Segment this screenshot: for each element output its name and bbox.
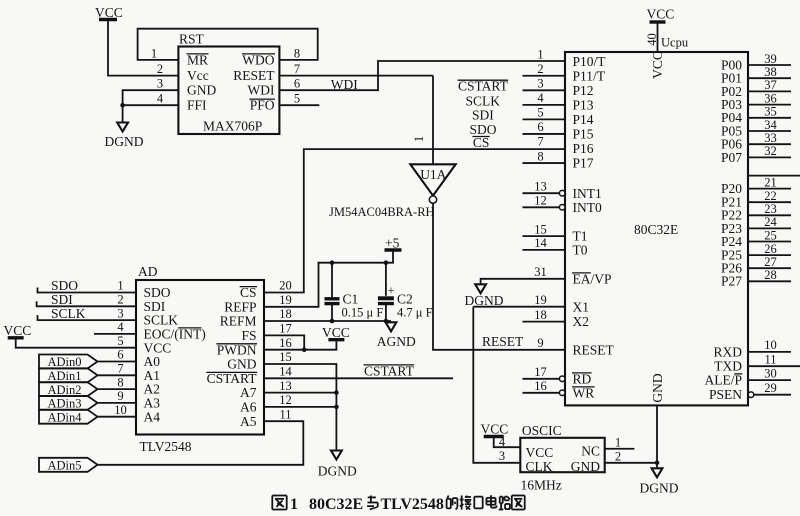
svg-text:P16: P16: [573, 141, 594, 156]
svg-text:0.15 μ F: 0.15 μ F: [342, 306, 384, 320]
pin 18 TLV right: [220, 307, 292, 328]
svg-text:40: 40: [645, 33, 659, 46]
wire ADin1 to pin7: [98, 374, 137, 376]
junction C1 top: [330, 260, 335, 265]
wire FS pin17 down to PWDN: [264, 335, 304, 349]
pin 4 FFI: [157, 92, 207, 113]
svg-text:DGND: DGND: [640, 481, 679, 496]
power +5: [385, 236, 402, 251]
svg-text:ADin3: ADin3: [48, 397, 82, 411]
pin 39 P00: [721, 52, 791, 73]
svg-text:RESET: RESET: [573, 342, 615, 357]
svg-text:6: 6: [537, 120, 543, 134]
svg-text:3: 3: [537, 77, 543, 91]
svg-text:MAX706P: MAX706P: [203, 119, 262, 134]
pin 26 P25: [721, 242, 791, 263]
pin 36 P03: [721, 91, 791, 112]
svg-text:4: 4: [499, 435, 506, 449]
svg-text:C1: C1: [343, 292, 359, 307]
svg-text:DGND: DGND: [105, 134, 144, 149]
svg-text:CS: CS: [240, 285, 257, 300]
wire WDI pin6 to 80C32E pin1: [280, 61, 566, 90]
pin 28 P27: [721, 268, 791, 289]
pin 17 RD: [523, 365, 592, 386]
svg-text:WR: WR: [573, 385, 595, 400]
svg-text:20: 20: [279, 279, 292, 293]
wire GND pin15 down: [264, 364, 336, 451]
svg-text:TLV2548: TLV2548: [140, 439, 192, 454]
pin 40 wire into top: [657, 24, 659, 53]
wire X1 down to oscillator CLK: [473, 307, 520, 463]
overline CS pin20: [240, 286, 257, 288]
wire ADin4 to pin10: [98, 416, 137, 418]
pin 15 T1: [523, 222, 588, 243]
svg-text:80C32E: 80C32E: [634, 222, 678, 237]
svg-text:18: 18: [279, 307, 292, 321]
svg-text:A1: A1: [144, 368, 161, 383]
svg-text:4: 4: [537, 91, 544, 105]
svg-text:8: 8: [294, 47, 300, 61]
overline PWDN pin16: [216, 343, 257, 345]
pin 8 P17: [523, 149, 594, 170]
pin 12 INT0: [523, 194, 602, 215]
wire A6 pin12: [264, 406, 336, 408]
pin 6 WDI: [248, 77, 301, 98]
svg-text:19: 19: [534, 293, 547, 307]
pin 7 RESET: [233, 62, 300, 83]
svg-text:16: 16: [534, 379, 547, 393]
pin 30 ALE/P: [704, 366, 791, 387]
svg-text:25: 25: [764, 228, 777, 242]
svg-text:21: 21: [764, 175, 777, 189]
svg-text:SCLK: SCLK: [51, 306, 86, 321]
wire unnumbered stub right: [748, 175, 800, 177]
svg-text:A6: A6: [240, 400, 257, 415]
svg-text:1: 1: [117, 279, 123, 293]
svg-text:WDI: WDI: [248, 83, 275, 98]
wire PFO pin5 stub: [280, 104, 320, 106]
junction FS/PWDN: [302, 347, 307, 352]
wire SDO net: [38, 278, 137, 293]
svg-text:RESET: RESET: [233, 68, 275, 83]
pin 11 TLV right: [240, 407, 292, 428]
svg-text:ADin1: ADin1: [48, 369, 82, 383]
svg-text:SCLK: SCLK: [144, 313, 179, 328]
pin 4 P13: [523, 91, 594, 112]
wire U1A output to 80C32E RESET pin9: [433, 203, 565, 349]
pin 6 TLV left: [117, 348, 160, 369]
pin 4 TLV left: [117, 320, 205, 341]
svg-text:Ucpu: Ucpu: [661, 36, 689, 50]
svg-text:REFM: REFM: [220, 314, 257, 329]
pin 10 TLV left: [114, 403, 160, 424]
svg-text:ALE/P: ALE/P: [704, 373, 742, 388]
svg-text:1: 1: [290, 496, 298, 513]
svg-text:17: 17: [279, 322, 292, 336]
svg-text:VCC: VCC: [647, 7, 675, 22]
op-amp U1A inverter triangle: [410, 164, 455, 195]
pin 14 TLV right: [207, 365, 293, 386]
svg-text:Vcc: Vcc: [187, 68, 209, 83]
svg-text:34: 34: [764, 118, 777, 132]
wire CS net: TLV2548 pin20 up and right to 80C32E pin7: [264, 149, 565, 292]
svg-text:39: 39: [764, 52, 777, 66]
junction C1 bottom: [330, 319, 335, 324]
pin 20 TLV right: [240, 279, 292, 300]
pin 35 P04: [721, 105, 791, 126]
svg-text:28: 28: [764, 268, 777, 282]
svg-text:3: 3: [117, 306, 123, 320]
svg-text:ADin0: ADin0: [48, 355, 82, 369]
svg-text:EOC/(INT): EOC/(INT): [144, 327, 206, 342]
pin 5 TLV left: [117, 334, 171, 355]
pin 11 TXD: [714, 352, 800, 373]
svg-text:A5: A5: [240, 414, 257, 429]
adc TLV2548 box: [136, 280, 264, 454]
svg-text:CSTART: CSTART: [364, 363, 415, 378]
overline CSTART pin14: [206, 371, 257, 373]
pin 24 P23: [721, 215, 791, 236]
svg-text:7: 7: [117, 362, 123, 376]
svg-text:+: +: [388, 284, 395, 298]
svg-text:5: 5: [117, 334, 123, 348]
wire GND pin down to oscillator row: [656, 405, 658, 468]
power VCC (osc): [481, 422, 509, 437]
svg-text:P14: P14: [573, 112, 594, 127]
power VCC (left): [4, 323, 32, 338]
svg-text:DGND: DGND: [465, 293, 504, 308]
svg-text:SDI: SDI: [144, 299, 166, 314]
svg-text:PSEN: PSEN: [709, 387, 742, 402]
svg-text:ADin2: ADin2: [48, 383, 82, 397]
ground DGND (MAX706P): [105, 123, 144, 150]
svg-text:10: 10: [764, 338, 777, 352]
wire ADin5 to A5 pin11: [98, 421, 304, 465]
caption 图1 80C32E与TLV2548的接口电路图: [272, 495, 524, 513]
pin 15 TLV right: [227, 350, 292, 371]
U1A output bubble: [429, 196, 436, 203]
svg-text:80C32E: 80C32E: [309, 496, 363, 513]
svg-text:PWDN: PWDN: [217, 342, 257, 357]
svg-text:T0: T0: [573, 243, 588, 258]
svg-text:5: 5: [537, 106, 543, 120]
svg-text:X1: X1: [573, 299, 590, 314]
svg-text:35: 35: [764, 105, 777, 119]
pin 1 TLV left: [117, 279, 170, 300]
pin 5 PFO: [249, 92, 300, 113]
svg-text:32: 32: [764, 144, 777, 158]
svg-text:23: 23: [764, 202, 777, 216]
wire PWDN pin16 to VCC: [264, 341, 336, 350]
pin 13 INT1: [523, 179, 602, 200]
svg-text:A2: A2: [144, 382, 161, 397]
port ADin0 flag: [39, 355, 98, 370]
svg-text:P27: P27: [721, 274, 742, 289]
pin 23 P22: [721, 202, 791, 223]
svg-text:GND: GND: [227, 357, 256, 372]
svg-text:14: 14: [534, 236, 547, 250]
svg-text:CSTART: CSTART: [458, 79, 509, 94]
svg-text:SDO: SDO: [144, 285, 171, 300]
svg-text:2: 2: [615, 450, 621, 464]
svg-text:13: 13: [534, 179, 547, 193]
svg-text:31: 31: [534, 265, 547, 279]
op chip U? MAX706P box: [178, 47, 279, 135]
wire VCC to MAX706P pin2: [108, 21, 178, 76]
svg-text:GND: GND: [650, 373, 665, 402]
svg-text:2: 2: [537, 62, 543, 76]
svg-text:1: 1: [537, 47, 543, 61]
power VCC (over 80C32E): [647, 7, 675, 23]
svg-text:38: 38: [764, 65, 777, 79]
pin 21 P20: [721, 175, 791, 196]
pin 16 TLV right: [217, 336, 292, 357]
svg-text:VCC: VCC: [650, 51, 665, 79]
svg-text:A4: A4: [144, 409, 161, 424]
svg-text:SCLK: SCLK: [466, 93, 501, 108]
capacitor C1: [325, 263, 384, 321]
port ADin5 flag: [39, 458, 98, 473]
svg-text:2: 2: [157, 62, 163, 76]
wire CSTART pin14 net: [264, 363, 453, 378]
pin 18 X2: [523, 308, 590, 329]
svg-text:P17: P17: [573, 156, 594, 171]
svg-text:37: 37: [764, 78, 777, 92]
wire REFP pin19 to +5 rail: [264, 251, 393, 307]
ground AGND: [377, 322, 416, 349]
svg-text:CS: CS: [473, 135, 490, 150]
svg-text:DGND: DGND: [318, 464, 357, 479]
svg-text:RD: RD: [573, 371, 592, 386]
power VCC (PWDN): [322, 325, 350, 340]
svg-text:AD: AD: [138, 264, 158, 279]
svg-text:1: 1: [615, 436, 621, 450]
pin 9 TLV left: [117, 389, 160, 410]
svg-text:PFO: PFO: [250, 98, 275, 113]
svg-text:3: 3: [499, 449, 505, 463]
svg-text:GND: GND: [187, 83, 216, 98]
pin 17 TLV right: [241, 322, 291, 343]
oscillator OSCIC box: [520, 438, 604, 474]
svg-text:RXD: RXD: [713, 344, 742, 359]
svg-text:CSTART: CSTART: [207, 371, 258, 386]
svg-text:VCC: VCC: [95, 5, 123, 20]
svg-text:AGND: AGND: [377, 334, 416, 349]
pin 14 T0: [523, 236, 588, 257]
svg-text:9: 9: [117, 389, 123, 403]
wire ADin3 to pin9: [98, 402, 137, 404]
svg-text:11: 11: [279, 407, 291, 421]
pin 27 P26: [721, 255, 791, 276]
wire SCLK net: [38, 306, 137, 321]
svg-text:GND: GND: [571, 459, 600, 474]
svg-text:5: 5: [294, 92, 300, 106]
svg-text:U1A: U1A: [420, 167, 446, 182]
svg-text:TXD: TXD: [714, 359, 742, 374]
svg-text:NC: NC: [581, 444, 600, 459]
pin 33 P06: [721, 131, 791, 152]
svg-text:1: 1: [151, 47, 157, 61]
svg-text:SDI: SDI: [51, 292, 73, 307]
svg-text:3: 3: [157, 77, 163, 91]
svg-text:WDI: WDI: [331, 77, 358, 92]
svg-text:30: 30: [764, 366, 777, 380]
svg-text:P13: P13: [573, 97, 594, 112]
svg-text:10: 10: [114, 403, 127, 417]
svg-text:4: 4: [117, 320, 124, 334]
svg-text:TLV2548: TLV2548: [381, 496, 444, 513]
svg-text:15: 15: [534, 222, 547, 236]
wire FFI pin4: [123, 104, 179, 106]
svg-text:7: 7: [537, 135, 543, 149]
pin 1 osc NC stub: [605, 436, 635, 450]
pin 38 P01: [721, 65, 791, 86]
svg-text:24: 24: [764, 215, 777, 229]
svg-text:11: 11: [764, 352, 776, 366]
svg-text:ADin5: ADin5: [48, 459, 82, 473]
pin 13 TLV right: [240, 379, 292, 400]
pin 31 EA/VP: [481, 265, 612, 286]
pin 5 P14: [523, 106, 594, 127]
pin 3 GND: [157, 77, 217, 98]
wire VCC to pin5: [16, 339, 136, 347]
pin 29 PSEN: [709, 381, 791, 402]
svg-text:27: 27: [764, 255, 777, 269]
pin 2 TLV left: [117, 293, 165, 314]
pin 3 P12: [523, 77, 594, 98]
pin 7 TLV left: [117, 362, 160, 383]
svg-text:VCC: VCC: [526, 445, 554, 460]
pin 12 TLV right: [240, 393, 292, 414]
svg-text:16MHz: 16MHz: [521, 478, 562, 493]
wire A7 pin13: [264, 392, 336, 394]
pin 2 P11/T: [523, 62, 606, 83]
wire GND pin3 down: [123, 90, 179, 122]
power VCC (top left): [95, 5, 123, 20]
junction A7: [334, 390, 339, 395]
svg-text:18: 18: [534, 308, 547, 322]
svg-text:WDO: WDO: [242, 52, 274, 67]
pin 16 WR: [523, 379, 595, 400]
svg-text:36: 36: [764, 91, 777, 105]
wire SDI net: [37, 292, 136, 307]
svg-text:A0: A0: [144, 354, 161, 369]
svg-text:19: 19: [279, 293, 292, 307]
pin 2 Vcc: [157, 62, 209, 83]
pin 37 P02: [721, 78, 791, 99]
wire ADin2 to pin8: [98, 388, 137, 390]
svg-text:P15: P15: [573, 127, 594, 142]
svg-text:P12: P12: [573, 83, 594, 98]
pin 6 P15: [523, 120, 594, 141]
svg-text:MR: MR: [187, 52, 208, 67]
svg-text:FS: FS: [241, 328, 256, 343]
svg-text:33: 33: [764, 131, 777, 145]
microcontroller 80C32E box: [565, 52, 748, 405]
svg-text:JM54AC04BRA-RH: JM54AC04BRA-RH: [329, 205, 435, 219]
pin 25 P24: [721, 228, 791, 249]
svg-text:P07: P07: [721, 150, 742, 165]
svg-text:7: 7: [294, 62, 300, 76]
pin 8 TLV left: [117, 375, 160, 396]
pin 34 P05: [721, 118, 791, 139]
svg-text:C2: C2: [397, 292, 413, 307]
svg-text:INT1: INT1: [573, 186, 602, 201]
port ADin1 flag: [39, 368, 98, 383]
pin 19 X1: [473, 293, 589, 314]
junction C2 top: [384, 260, 389, 265]
junction GND/osc pin2: [655, 461, 660, 466]
ground DGND (cpu): [640, 468, 679, 495]
pin 8 WDO: [242, 47, 300, 68]
svg-text:RST: RST: [179, 32, 205, 47]
svg-text:14: 14: [279, 365, 292, 379]
svg-text:EA/VP: EA/VP: [573, 271, 612, 286]
pin 9 RESET: [537, 336, 614, 357]
svg-text:X2: X2: [573, 314, 590, 329]
svg-text:6: 6: [294, 77, 300, 91]
svg-text:29: 29: [764, 381, 777, 395]
pin 7 P16: [537, 135, 593, 156]
junction C2 bottom: [384, 319, 389, 324]
svg-text:FFI: FFI: [187, 98, 207, 113]
svg-text:15: 15: [279, 350, 292, 364]
svg-text:12: 12: [279, 393, 292, 407]
svg-text:REFP: REFP: [224, 299, 256, 314]
port ADin3 flag: [39, 396, 98, 411]
pin 22 P21: [721, 189, 791, 210]
svg-text:P10/T: P10/T: [573, 54, 607, 69]
svg-text:OSCIC: OSCIC: [522, 423, 562, 438]
wire WDO pin8 loop to MR pin1 (RST net): [138, 29, 318, 60]
capacitor C2 (polarized): [378, 263, 433, 321]
svg-text:VCC: VCC: [4, 323, 32, 338]
svg-text:4: 4: [157, 92, 164, 106]
svg-text:13: 13: [279, 379, 292, 393]
svg-text:INT0: INT0: [573, 200, 602, 215]
svg-text:T1: T1: [573, 229, 588, 244]
svg-text:SDI: SDI: [472, 108, 494, 123]
junction A6: [334, 405, 339, 410]
svg-text:12: 12: [534, 194, 547, 208]
svg-text:22: 22: [764, 189, 777, 203]
port ADin4 flag: [39, 410, 98, 425]
ground DGND (TLV): [318, 451, 357, 479]
wire REFM pin18 rail to AGND: [264, 320, 391, 322]
svg-text:A3: A3: [144, 396, 161, 411]
svg-text:8: 8: [537, 149, 543, 163]
svg-text:SDO: SDO: [51, 278, 78, 293]
svg-text:VCC: VCC: [144, 340, 172, 355]
svg-text:VCC: VCC: [322, 325, 350, 340]
wire VCC to osc pin4: [494, 438, 521, 447]
ground DGND (pin31): [465, 284, 504, 308]
svg-text:A7: A7: [240, 385, 257, 400]
svg-text:2: 2: [117, 293, 123, 307]
svg-text:1: 1: [412, 136, 426, 142]
svg-text:P11/T: P11/T: [573, 68, 606, 83]
wire EOC stub pin4: [94, 333, 136, 335]
pin 1 P10/T: [537, 47, 606, 68]
svg-text:9: 9: [537, 336, 543, 350]
port ADin2 flag: [39, 382, 98, 397]
junction pin3/pin4: [120, 103, 125, 108]
svg-text:+5: +5: [385, 236, 400, 251]
overline INT of EOC: [178, 327, 201, 329]
svg-text:6: 6: [117, 348, 123, 362]
pin 1 MR: [151, 47, 209, 68]
svg-text:17: 17: [534, 365, 547, 379]
